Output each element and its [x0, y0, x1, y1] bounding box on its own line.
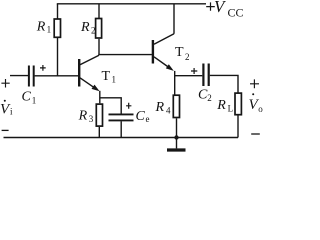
svg-text:V: V [214, 0, 227, 16]
svg-text:R: R [78, 109, 88, 124]
svg-text:1: 1 [32, 95, 37, 105]
resistor RL [235, 93, 241, 115]
svg-text:2: 2 [207, 93, 212, 103]
wire: Ce bottom lead to ground rail [120, 121, 122, 137]
wire: emitter branch to C2 [175, 75, 203, 77]
svg-text:L: L [228, 104, 234, 114]
svg-text:2: 2 [185, 52, 190, 62]
wire: C1 to T1 base [35, 75, 79, 77]
wire: R2 bottom lead to collector node [98, 39, 100, 55]
capacitor Ce [109, 114, 134, 120]
svg-text:T: T [102, 69, 111, 84]
label: C1 + polarity [40, 65, 46, 71]
wire: C2 to RL top [210, 75, 238, 92]
svg-text:1: 1 [112, 75, 117, 85]
wire: emitter branch to Ce [100, 98, 121, 114]
capacitor C2 [203, 64, 208, 87]
wire: R3 bottom lead to ground rail [98, 127, 100, 138]
ground [167, 138, 186, 151]
svg-text:T: T [175, 45, 184, 60]
wire: RL bottom lead to ground rail [237, 115, 239, 137]
transistor T2 [153, 34, 174, 71]
svg-text:3: 3 [89, 114, 94, 124]
svg-text:C: C [136, 109, 146, 124]
label: output + polarity [250, 79, 259, 88]
transistor T1 [79, 55, 99, 91]
label: +Vcc supply [206, 2, 215, 10]
label: input + polarity [1, 79, 9, 88]
wire: T2 emitter down to R4 [174, 71, 176, 95]
svg-text:2: 2 [91, 25, 96, 35]
wire: R4 bottom lead to ground rail [176, 118, 178, 137]
svg-text:e: e [146, 114, 150, 124]
wire: T1 emitter down to R3 [99, 91, 101, 104]
svg-text:o: o [258, 104, 263, 114]
node: R4/ground junction dot [174, 135, 178, 139]
wire: T2 collector riser to +Vcc rail [173, 4, 175, 34]
capacitor C1 [29, 66, 34, 87]
wire: +Vcc top rail [57, 3, 206, 5]
svg-text:1: 1 [47, 24, 52, 34]
label: Ce + polarity [126, 103, 131, 109]
wire: R1 top lead [57, 4, 59, 20]
label: C2 + polarity [191, 68, 197, 74]
svg-text:R: R [155, 100, 165, 115]
svg-text:i: i [10, 107, 13, 117]
svg-text:R: R [80, 20, 90, 35]
wire: R2 top lead [98, 4, 100, 19]
label: input - polarity [2, 129, 9, 131]
resistor R1 [54, 19, 60, 37]
resistor R3 [96, 104, 102, 126]
svg-text:CC: CC [228, 5, 244, 19]
wire: bottom common rail [4, 137, 239, 139]
svg-text:R: R [36, 20, 46, 35]
svg-text:C: C [22, 90, 32, 105]
label: output - polarity [251, 133, 260, 135]
resistor R2 [96, 19, 102, 39]
wire: R1 bottom lead to base node [57, 38, 59, 77]
wire: input lead to C1 [10, 75, 28, 77]
svg-text:R: R [216, 98, 226, 113]
wire: T1 collector node to T2 base [98, 54, 152, 56]
resistor R4 [173, 95, 179, 117]
svg-text:4: 4 [166, 105, 171, 115]
